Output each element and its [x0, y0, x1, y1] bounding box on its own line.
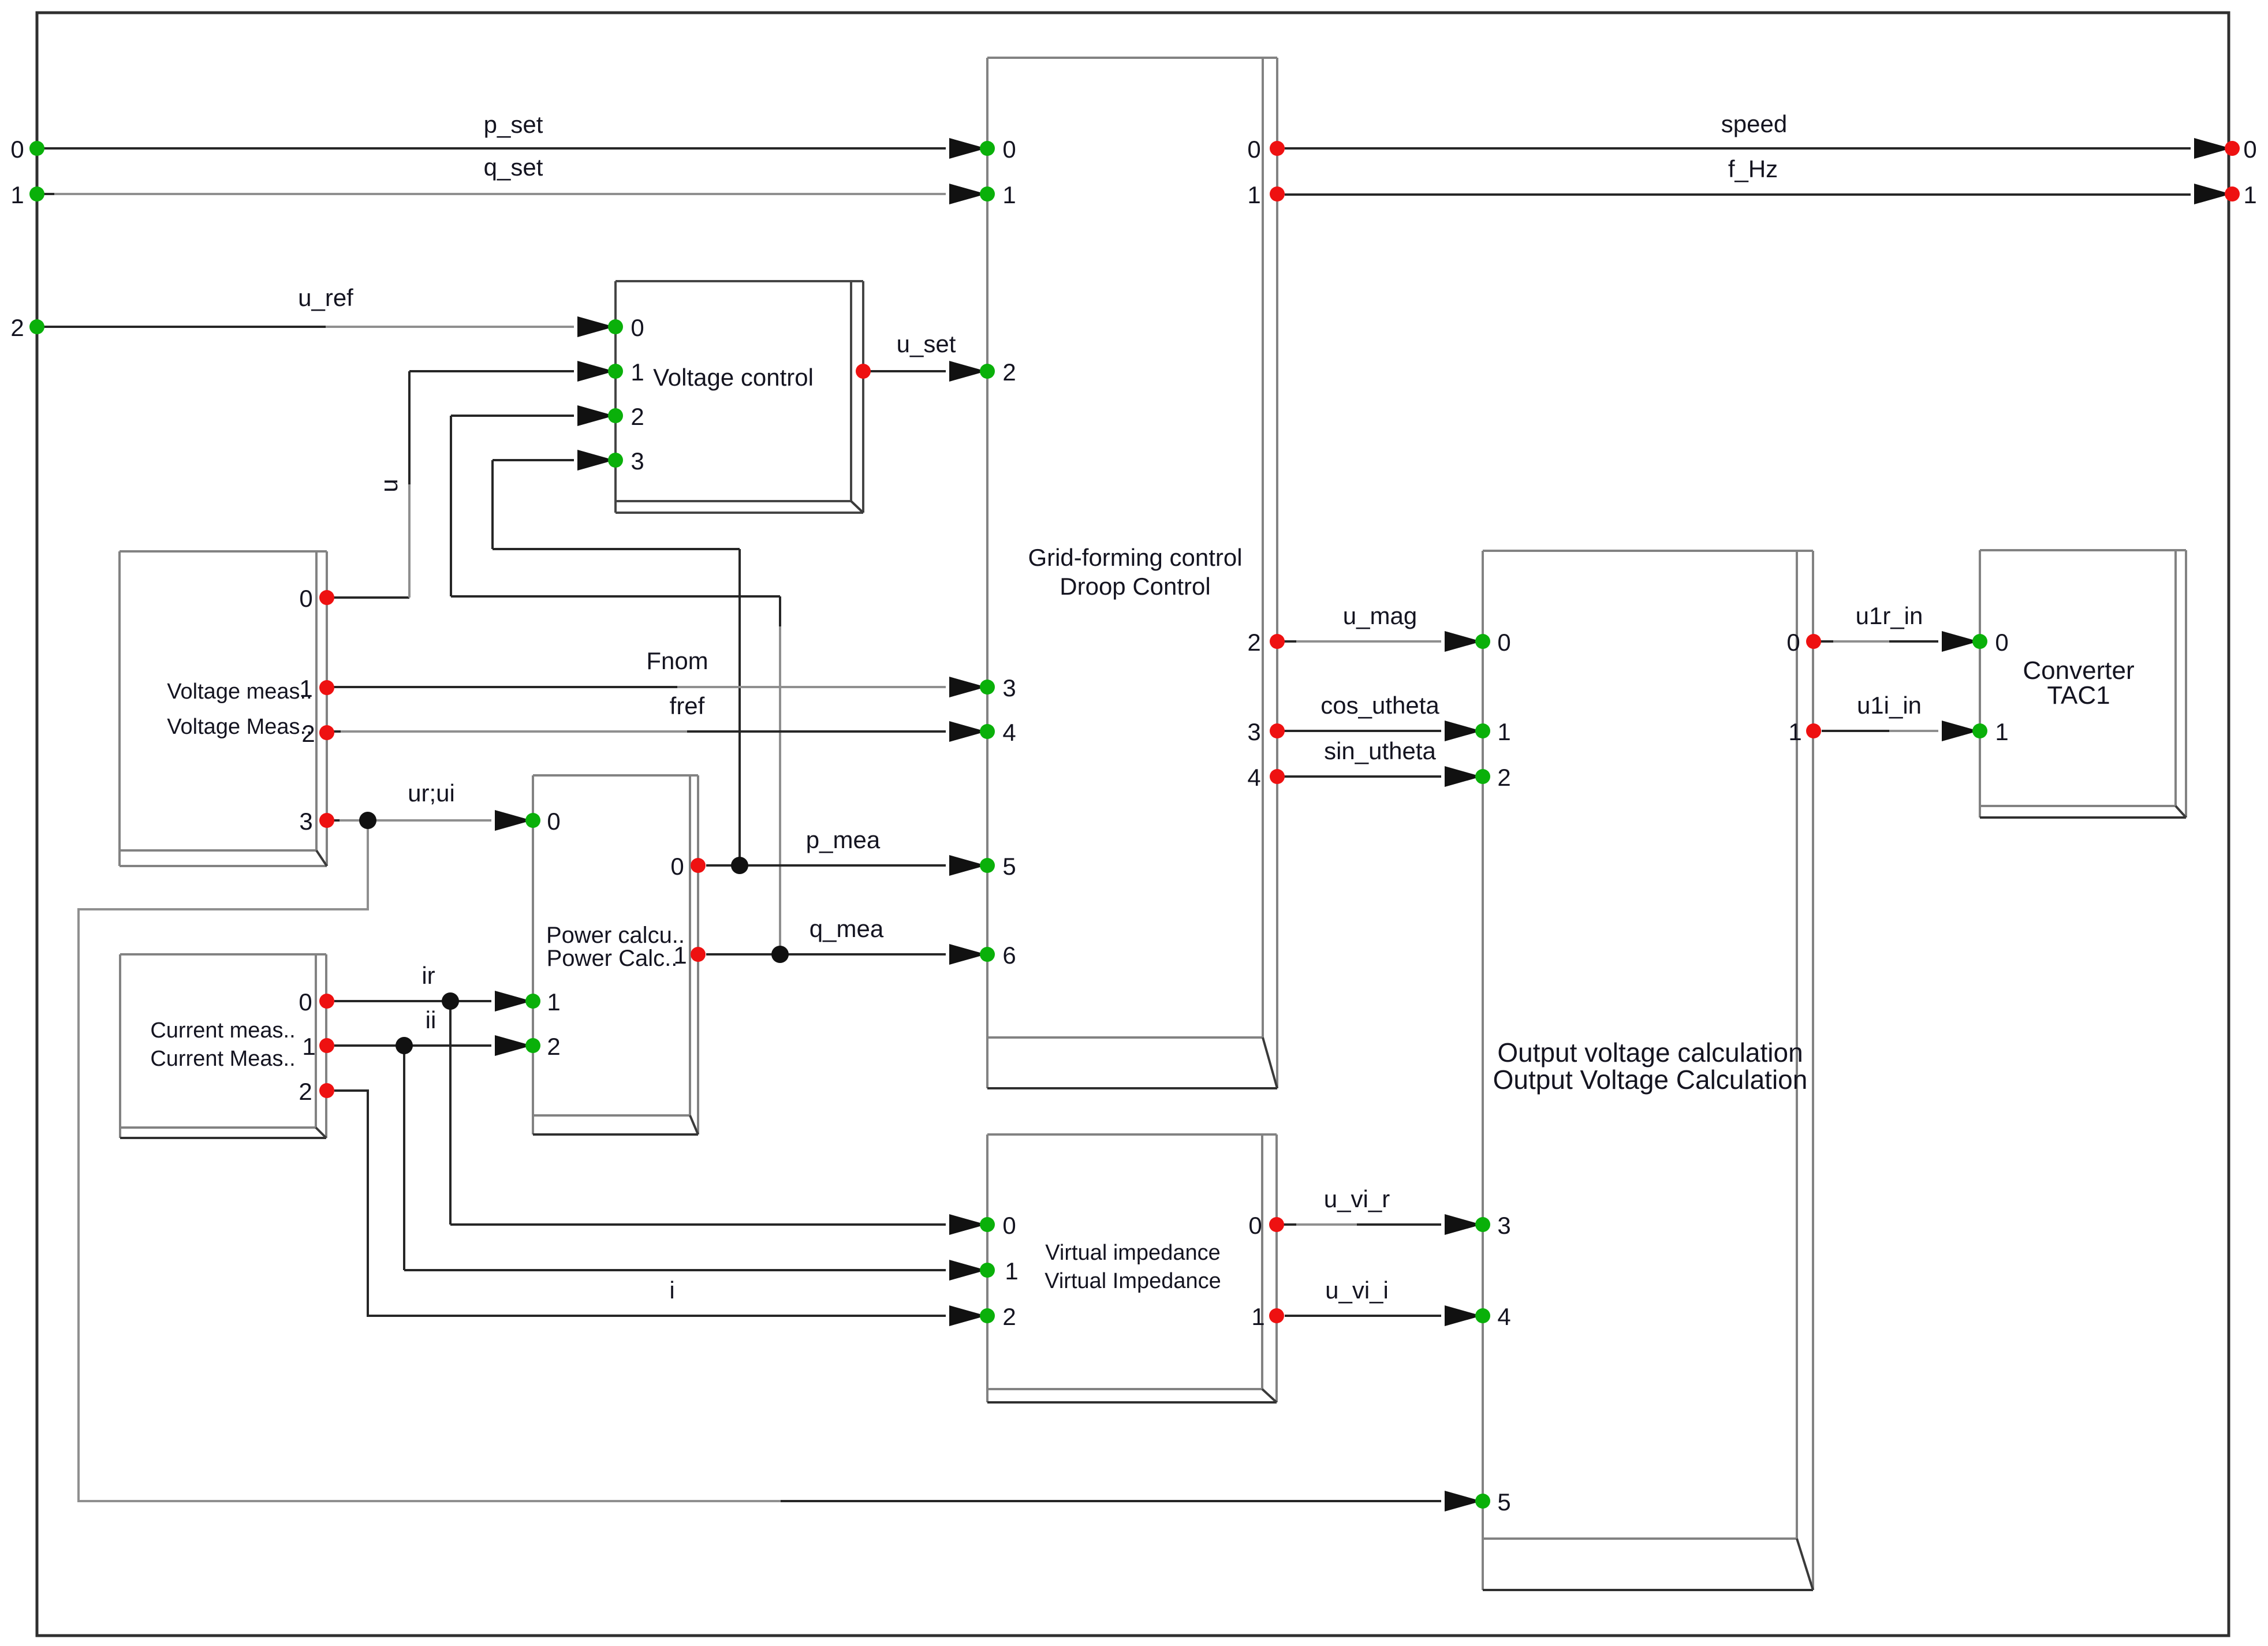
- wire q_set: [40, 193, 946, 195]
- svg-text:0: 0: [631, 314, 644, 341]
- svg-text:1: 1: [631, 359, 644, 386]
- block Power calc outline: [533, 775, 698, 1134]
- svg-text:u_ref: u_ref: [298, 284, 353, 311]
- svg-text:2: 2: [1002, 359, 1016, 386]
- svg-text:0: 0: [670, 853, 684, 880]
- svg-text:1: 1: [1995, 718, 2008, 745]
- svg-text:2: 2: [10, 314, 24, 341]
- input port dots (green): [29, 141, 1987, 1509]
- svg-text:1: 1: [1002, 181, 1016, 208]
- wire ur;ui: [327, 819, 491, 822]
- svg-text:speed: speed: [1721, 110, 1787, 137]
- svg-text:0: 0: [1248, 1212, 1262, 1239]
- block Grid-forming control outline: [987, 58, 1277, 1088]
- block Voltage control title: [653, 364, 814, 391]
- svg-text:Output Voltage Calculation: Output Voltage Calculation: [1493, 1065, 1808, 1095]
- svg-text:u_set: u_set: [897, 330, 956, 357]
- svg-text:p_set: p_set: [484, 111, 543, 138]
- svg-text:2: 2: [631, 403, 644, 430]
- block Converter TAC1 title: [2023, 656, 2134, 710]
- svg-text:3: 3: [299, 808, 312, 835]
- svg-text:u1r_in: u1r_in: [1856, 602, 1923, 629]
- block Output voltage calculation title: [1493, 1037, 1808, 1095]
- label i: [669, 1277, 674, 1304]
- svg-text:u1i_in: u1i_in: [1857, 692, 1922, 719]
- svg-text:0: 0: [299, 585, 312, 612]
- label fref: [670, 692, 705, 719]
- svg-text:3: 3: [631, 447, 644, 475]
- svg-text:Power Calc..: Power Calc..: [547, 946, 678, 971]
- wire ir: [334, 1000, 491, 1002]
- block Grid-forming control title: [1028, 544, 1242, 600]
- svg-text:q_mea: q_mea: [810, 915, 884, 942]
- block Voltage meas. outline: [120, 551, 327, 866]
- svg-text:Output voltage calculation: Output voltage calculation: [1497, 1037, 1803, 1068]
- svg-text:u_vi_r: u_vi_r: [1324, 1185, 1390, 1212]
- node ir junction: [442, 992, 459, 1010]
- label sin_utheta: [1324, 737, 1436, 764]
- wire u1r_in: [1814, 640, 1938, 643]
- svg-text:Power calcu..: Power calcu..: [546, 923, 685, 948]
- wire q_mea: [706, 953, 946, 955]
- wire ir branch to Virtual impedance.0: [450, 1001, 946, 1225]
- label q_set: [484, 154, 543, 181]
- svg-text:Droop Control: Droop Control: [1060, 573, 1210, 600]
- wire p_mea: [706, 864, 946, 867]
- wire from ur;ui junction to Output voltage calculation.5: [79, 820, 1441, 1501]
- svg-text:2: 2: [547, 1033, 560, 1060]
- svg-text:Current meas..: Current meas..: [150, 1018, 295, 1043]
- label p_mea: [806, 826, 881, 853]
- label u1r_in: [1856, 602, 1923, 629]
- wire u_mag: [1277, 640, 1441, 643]
- label f_Hz: [1728, 155, 1778, 182]
- block Voltage meas. title: [167, 680, 312, 739]
- svg-text:3: 3: [1497, 1212, 1510, 1239]
- svg-text:4: 4: [1497, 1303, 1510, 1330]
- svg-text:3: 3: [1002, 674, 1016, 701]
- label ur;ui: [408, 779, 455, 807]
- svg-text:5: 5: [1497, 1488, 1510, 1516]
- svg-text:u_vi_i: u_vi_i: [1325, 1277, 1389, 1304]
- svg-text:u: u: [375, 479, 402, 492]
- svg-text:Voltage Meas..: Voltage Meas..: [167, 715, 312, 739]
- block Current meas. title: [150, 1018, 295, 1071]
- svg-text:1: 1: [1497, 718, 1510, 745]
- label u_vi_i: [1325, 1277, 1389, 1304]
- svg-text:2: 2: [299, 1078, 312, 1105]
- svg-text:1: 1: [1247, 181, 1260, 208]
- svg-text:Virtual impedance: Virtual impedance: [1045, 1241, 1220, 1265]
- svg-text:sin_utheta: sin_utheta: [1324, 737, 1436, 764]
- svg-text:5: 5: [1002, 853, 1016, 880]
- svg-text:Grid-forming control: Grid-forming control: [1028, 544, 1242, 571]
- svg-text:6: 6: [1002, 942, 1016, 969]
- label p_set: [484, 111, 543, 138]
- label u (rotated): [375, 479, 402, 492]
- svg-text:1: 1: [673, 942, 687, 969]
- svg-text:2: 2: [1002, 1303, 1016, 1330]
- svg-text:ii: ii: [426, 1006, 437, 1033]
- label u_set: [897, 330, 956, 357]
- node ii junction: [396, 1037, 413, 1054]
- wire fref: [327, 730, 946, 733]
- node q_mea junction: [771, 946, 789, 963]
- svg-text:4: 4: [1002, 719, 1016, 746]
- svg-text:2: 2: [301, 720, 315, 747]
- output port dots (red): [319, 141, 2240, 1323]
- label u_ref: [298, 284, 353, 311]
- wire f_Hz: [1285, 193, 2191, 196]
- label u1i_in: [1857, 692, 1922, 719]
- label cos_utheta: [1320, 692, 1439, 719]
- svg-text:Converter: Converter: [2023, 656, 2134, 685]
- svg-text:0: 0: [1002, 1212, 1016, 1239]
- wire p_mea branch to Voltage control.3: [493, 460, 740, 865]
- wire ii: [334, 1044, 491, 1047]
- block Voltage control outline: [616, 281, 863, 513]
- wire u_set: [863, 370, 946, 372]
- svg-text:cos_utheta: cos_utheta: [1320, 692, 1439, 719]
- wire ii branch to Virtual impedance.1: [404, 1046, 946, 1270]
- svg-text:1: 1: [1005, 1257, 1018, 1285]
- svg-text:Virtual Impedance: Virtual Impedance: [1045, 1269, 1221, 1293]
- block Virtual impedance outline: [987, 1134, 1277, 1402]
- wire arrowheads: [495, 138, 2231, 1511]
- svg-text:1: 1: [1251, 1303, 1264, 1330]
- svg-text:0: 0: [1995, 629, 2008, 656]
- svg-text:fref: fref: [670, 692, 705, 719]
- svg-text:0: 0: [1786, 629, 1800, 656]
- svg-text:Voltage control: Voltage control: [653, 364, 814, 391]
- wire u1i_in: [1822, 730, 1938, 732]
- svg-text:u_mag: u_mag: [1343, 602, 1417, 629]
- svg-text:1: 1: [547, 988, 560, 1016]
- label ir: [421, 962, 435, 989]
- svg-text:Fnom: Fnom: [646, 647, 708, 674]
- block Output voltage calculation outline: [1483, 551, 1813, 1590]
- svg-text:1: 1: [302, 1033, 315, 1060]
- block Power calc title: [546, 923, 685, 971]
- svg-text:2: 2: [1247, 629, 1260, 656]
- svg-text:Voltage meas..: Voltage meas..: [167, 680, 312, 704]
- svg-text:3: 3: [1247, 718, 1260, 745]
- svg-text:0: 0: [10, 136, 24, 163]
- svg-text:2: 2: [1497, 764, 1510, 791]
- svg-text:0: 0: [299, 988, 312, 1016]
- wire sin_utheta: [1277, 775, 1441, 778]
- wire cos_utheta: [1277, 730, 1441, 732]
- svg-text:0: 0: [2243, 136, 2256, 163]
- node ur;ui junction: [359, 812, 376, 829]
- svg-text:1: 1: [10, 181, 24, 208]
- wire u_vi_r: [1277, 1223, 1441, 1226]
- svg-text:0: 0: [1002, 136, 1016, 163]
- svg-text:q_set: q_set: [484, 154, 543, 181]
- wire u_ref: [40, 326, 574, 328]
- wire i: [334, 1091, 946, 1316]
- block Converter TAC1 outline: [1980, 550, 2186, 818]
- wire u (Voltage meas.0 to Voltage control.1): [327, 371, 574, 598]
- svg-text:1: 1: [1788, 718, 1801, 745]
- label q_mea: [810, 915, 884, 942]
- wire p_set: [40, 147, 946, 150]
- svg-text:4: 4: [1247, 764, 1260, 791]
- wire q_mea branch to Voltage control.2: [451, 416, 780, 954]
- label speed: [1721, 110, 1787, 137]
- svg-text:Current Meas..: Current Meas..: [150, 1047, 295, 1071]
- svg-text:0: 0: [1497, 629, 1510, 656]
- svg-text:TAC1: TAC1: [2047, 681, 2110, 710]
- svg-text:f_Hz: f_Hz: [1728, 155, 1778, 182]
- label Fnom: [646, 647, 708, 674]
- svg-text:1: 1: [2243, 181, 2256, 208]
- wire speed: [1285, 147, 2191, 150]
- wire Fnom: [327, 686, 946, 688]
- svg-text:p_mea: p_mea: [806, 826, 881, 853]
- svg-text:ur;ui: ur;ui: [408, 779, 455, 807]
- label ii: [426, 1006, 437, 1033]
- wire u_vi_i: [1285, 1315, 1441, 1317]
- svg-text:0: 0: [1247, 136, 1260, 163]
- svg-text:i: i: [669, 1277, 674, 1304]
- label u_mag: [1343, 602, 1417, 629]
- svg-text:1: 1: [299, 675, 312, 702]
- svg-text:0: 0: [547, 808, 560, 835]
- block Virtual impedance title: [1045, 1241, 1221, 1293]
- label u_vi_r: [1324, 1185, 1390, 1212]
- node p_mea junction: [731, 857, 748, 874]
- block Current meas. outline: [120, 954, 326, 1138]
- svg-text:ir: ir: [421, 962, 435, 989]
